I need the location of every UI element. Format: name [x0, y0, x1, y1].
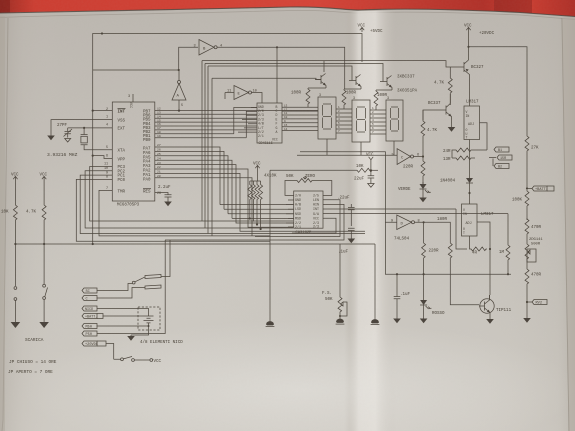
transistor Q6 TIP111: [479, 295, 494, 316]
jumper JP lugs: [145, 275, 161, 290]
wire INT: [93, 110, 113, 112]
wire gate E output: [252, 93, 263, 104]
node junction top left: [101, 32, 103, 34]
ground S1: [11, 322, 21, 328]
wire +BATT up: [103, 315, 144, 317]
IC U2 CD4511E: [257, 103, 282, 146]
wire VSS to ground: [51, 120, 112, 136]
wire PB risers to 4511: [234, 108, 257, 138]
ground .1uF: [393, 319, 401, 324]
wire PC0 loop: [76, 179, 270, 241]
regulator LM317 no2: [462, 204, 495, 236]
wire VPP: [93, 156, 113, 159]
wire display bottoms: [327, 139, 394, 155]
wire M50 P50 up: [97, 240, 170, 334]
wire vertical mid ground: [269, 170, 271, 322]
ground 22uF open: [368, 184, 374, 188]
wire bus top bundle: [202, 61, 456, 67]
switch S1: [14, 244, 16, 286]
wire long y274: [385, 222, 511, 274]
wire hook to 4R: [456, 209, 467, 249]
resistor 220R rosso: [423, 222, 425, 242]
wire NICD to battery: [97, 309, 149, 314]
ground VSS: [47, 136, 55, 141]
wire vertical right of fold: [374, 244, 376, 320]
wire PC2 loop: [85, 171, 293, 228]
wire bus y244: [15, 221, 44, 244]
wire 3162 right hooks: [165, 200, 460, 240]
wire to 27K column: [469, 47, 528, 135]
ground S2: [39, 322, 49, 328]
transistor Q3 BC337: [380, 76, 392, 91]
wire flag C to lug2: [97, 288, 145, 299]
fold band: [344, 11, 396, 431]
transistor Q5 BC337: [440, 104, 452, 120]
ground TIP: [489, 316, 491, 319]
net flag 15R: [497, 155, 512, 161]
wire segment bus to displays: [282, 107, 318, 130]
node junction A out: [178, 110, 180, 112]
wire +20VDC flag to switch: [106, 344, 114, 360]
op-amp gate A vertical: [172, 70, 186, 111]
ground Q5 emitter: [451, 119, 453, 127]
wire y70: [93, 69, 179, 71]
net flag P50: [82, 331, 97, 337]
ground dome FS: [336, 319, 345, 325]
switch power: [121, 358, 124, 361]
pin 3 VCC stub: [132, 94, 134, 102]
right page edge: [562, 18, 569, 431]
op-amp gate D 74LS04: [391, 215, 420, 230]
switch S2 SCARICA: [43, 244, 45, 284]
op-amp gate B 74LS04: [194, 40, 223, 56]
wire 4511 left pin stubs: [238, 108, 257, 133]
wire TMR: [99, 190, 270, 236]
battery 4/8 ELEMENTI NICD: [131, 307, 160, 335]
regulator LM317 no1: [464, 101, 480, 140]
wire top loop: [93, 34, 362, 111]
top page edge shadow line: [0, 7, 575, 17]
wire PC3 loop: [90, 167, 293, 222]
crystal XTAL 3.93216 MHZ: [81, 128, 113, 150]
wire main left vertical: [92, 111, 94, 244]
ground battery: [130, 335, 132, 336]
display DS2: [352, 97, 370, 142]
switch JP: [132, 281, 135, 284]
wire PA to right long: [155, 165, 365, 236]
wire PC1 loop: [80, 175, 365, 233]
wire gate B output: [217, 47, 345, 89]
wire ADJ1: [480, 123, 488, 150]
ground RES cap: [164, 202, 172, 207]
net flag +BATT2: [82, 314, 103, 320]
ground dome fold: [371, 319, 380, 325]
wire PB bus: [155, 110, 318, 137]
wire base T1: [277, 47, 324, 103]
wire vertical to FS pot: [339, 244, 341, 296]
wire base Q4: [449, 67, 451, 77]
op-amp gate C 74LS04: [392, 149, 420, 165]
ground verde: [419, 198, 427, 203]
wire gate C out: [414, 110, 424, 157]
net flag NICD: [82, 306, 97, 312]
wire gate B input: [179, 47, 198, 70]
wire EXT: [68, 127, 113, 129]
ground mid: [266, 321, 275, 327]
wire pot to chip pins: [285, 191, 332, 195]
transistor Q1 BC337: [315, 74, 326, 89]
wire bus PA lower: [155, 147, 232, 218]
ground cap open: [65, 139, 71, 143]
net flag +BATT: [532, 186, 554, 192]
display DS1: [318, 94, 336, 139]
net flag B2: [494, 164, 509, 170]
resistor 180R vertical: [448, 242, 452, 259]
node junction B: [178, 69, 180, 71]
net flag SC: [82, 288, 97, 294]
ground cap stack: [348, 239, 356, 244]
left page edge: [2, 18, 8, 431]
resistor 4.7K q5: [423, 110, 440, 120]
wire gate E input: [225, 93, 234, 100]
display DS3: [386, 97, 403, 141]
net flag RV2: [532, 300, 547, 306]
resistor array 4x10K: [250, 170, 261, 181]
net flag +20VDC: [82, 341, 106, 347]
transistor Q4 BC327: [456, 60, 470, 106]
ground right column: [523, 318, 531, 323]
IC U3 CA3162E: [294, 191, 323, 235]
op-amp gate E: [227, 86, 257, 100]
net flag B1: [494, 147, 509, 153]
net flag M50: [82, 324, 97, 330]
wire 3162 left stubs: [286, 200, 294, 227]
wire gate D out: [415, 222, 451, 242]
net flag C: [82, 296, 97, 302]
MCU U1 MC68705P3: [112, 102, 155, 208]
transistor Q2 BC337: [349, 75, 361, 90]
ground rosso: [420, 319, 428, 324]
wire ADJ2: [477, 222, 490, 249]
wire TIP collector: [489, 249, 492, 299]
